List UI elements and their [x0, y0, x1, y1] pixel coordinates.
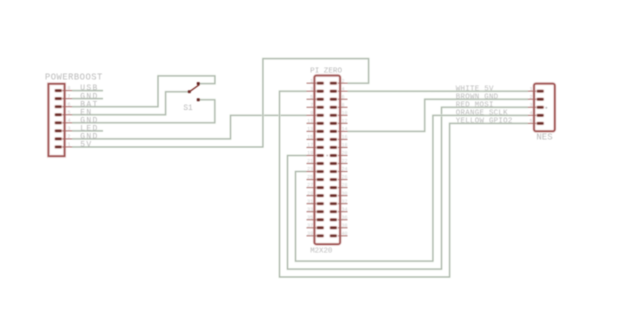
U1 pin 26 stub — [338, 179, 348, 181]
svg-text:24: 24 — [342, 167, 348, 173]
U1 pin 35 stub — [307, 219, 317, 221]
U1 pin 1 stub — [307, 82, 317, 84]
svg-text:YELLOW_GPIO2: YELLOW_GPIO2 — [456, 118, 513, 126]
svg-text:36: 36 — [342, 215, 348, 221]
U1 pin 12 stub — [338, 122, 348, 124]
svg-text:16: 16 — [342, 135, 348, 141]
U1 pin 15 stub — [307, 138, 317, 140]
wire BAT to S1 top throw — [72, 76, 215, 107]
U1 anchor dot — [326, 155, 328, 157]
U1 pin 28 stub — [338, 187, 348, 189]
svg-text:8: 8 — [342, 102, 345, 108]
svg-text:35: 35 — [307, 215, 313, 221]
U1 pin 7 stub — [307, 106, 317, 108]
wire ORANGE_SCLK PI pin 23 to NES pin 4 — [296, 115, 529, 261]
svg-text:17: 17 — [307, 143, 313, 149]
svg-text:WHITE_5V: WHITE_5V — [456, 86, 494, 94]
J1 pin 5 EN stub — [58, 114, 72, 116]
switch S1 throw contact top — [197, 82, 200, 85]
U1 pin 9 stub — [307, 114, 317, 116]
J1 pin 4 GND stub — [58, 122, 72, 124]
J1 pin 8 USB stub — [58, 90, 72, 92]
svg-text:4: 4 — [342, 86, 345, 92]
U1 pin 6 stub — [338, 98, 348, 100]
svg-text:18: 18 — [342, 143, 348, 149]
svg-text:27: 27 — [307, 183, 313, 189]
svg-text:12: 12 — [342, 118, 348, 124]
svg-text:26: 26 — [342, 175, 348, 181]
wire BROWN_GND PI pin 14 to NES pin 2 — [348, 99, 529, 131]
svg-text:9: 9 — [310, 110, 313, 116]
svg-text:10: 10 — [342, 110, 348, 116]
U1 pin 22 stub — [338, 163, 348, 165]
U1 pin 3 stub — [307, 90, 317, 92]
svg-text:37: 37 — [307, 223, 313, 229]
svg-text:3: 3 — [67, 126, 70, 132]
U1 pin 10 stub — [338, 114, 348, 116]
svg-text:25: 25 — [307, 175, 313, 181]
J1 pin 7 GND stub — [58, 98, 72, 100]
svg-text:38: 38 — [342, 223, 348, 229]
svg-text:1: 1 — [310, 78, 313, 84]
U1 pin 23 stub — [307, 171, 317, 173]
connector J2 NES body — [534, 84, 555, 132]
svg-text:7: 7 — [310, 102, 313, 108]
svg-text:22: 22 — [342, 159, 348, 165]
connector U1 PI ZERO body — [314, 76, 340, 245]
U1 pin 17 stub — [307, 146, 317, 148]
U1 pin 4 stub — [338, 90, 348, 92]
svg-text:6: 6 — [342, 94, 345, 100]
switch S1 common contact — [188, 90, 191, 93]
svg-text:5: 5 — [310, 94, 313, 100]
switch S1 lever — [189, 85, 200, 93]
svg-text:8: 8 — [67, 86, 70, 92]
J1 pin 1 5V stub — [58, 146, 72, 148]
svg-text:33: 33 — [307, 207, 313, 213]
svg-text:3: 3 — [310, 86, 313, 92]
J2 pin 4 stub — [528, 114, 537, 116]
svg-text:39: 39 — [307, 231, 313, 237]
svg-text:2: 2 — [529, 94, 532, 100]
U1 pin 2 stub — [338, 82, 348, 84]
wire GND to PI pin 9 — [72, 115, 307, 139]
wire net LED stub — [72, 130, 103, 132]
svg-text:ORANGE_SCLK: ORANGE_SCLK — [456, 110, 508, 118]
U1 pin 16 stub — [338, 138, 348, 140]
svg-text:7: 7 — [67, 94, 70, 100]
svg-text:31: 31 — [307, 199, 313, 205]
wire GND to S1 bottom throw — [72, 100, 215, 123]
wire EN to S1 common — [72, 92, 189, 115]
svg-text:5: 5 — [67, 110, 70, 116]
J1 pin 6 BAT stub — [58, 106, 72, 108]
U1 pin 38 stub — [338, 227, 348, 229]
U1 pin 14 stub — [338, 130, 348, 132]
J2 pin 1 stub — [528, 90, 537, 92]
U1 pin 30 stub — [338, 195, 348, 197]
svg-text:NES: NES — [536, 133, 552, 143]
U1 pin 34 stub — [338, 211, 348, 213]
J1 pin 2 GND stub — [58, 138, 72, 140]
U1 pin 39 stub — [307, 235, 317, 237]
U1 pin 19 stub — [307, 154, 317, 156]
switch S1 throw contact bottom — [197, 98, 200, 101]
wire net GND stub pin7 — [72, 98, 103, 100]
U1 pin 31 stub — [307, 203, 317, 205]
connector J1 POWERBOOST body — [48, 84, 64, 156]
wire YELLOW_GPIO2 PI pin 3 to NES pin 5 — [280, 91, 529, 277]
svg-text:3: 3 — [529, 102, 532, 108]
wire WHITE_5V PI pin 4 to NES pin 1 — [348, 90, 529, 92]
U1 pin 32 stub — [338, 203, 348, 205]
U1 pin 33 stub — [307, 211, 317, 213]
U1 pin 5 stub — [307, 98, 317, 100]
svg-text:29: 29 — [307, 191, 313, 197]
U1 pin 18 stub — [338, 146, 348, 148]
svg-text:28: 28 — [342, 183, 348, 189]
svg-text:5: 5 — [529, 119, 532, 125]
svg-text:30: 30 — [342, 191, 348, 197]
U1 pin 21 stub — [307, 163, 317, 165]
svg-text:40: 40 — [342, 231, 348, 237]
svg-text:32: 32 — [342, 199, 348, 205]
U1 pin 20 stub — [338, 154, 348, 156]
J2 pin 3 stub — [528, 106, 537, 108]
svg-text:15: 15 — [307, 135, 313, 141]
U1 pin 8 stub — [338, 106, 348, 108]
U1 pin 27 stub — [307, 187, 317, 189]
svg-text:14: 14 — [342, 126, 348, 132]
svg-text:13: 13 — [307, 126, 313, 132]
U1 pin 29 stub — [307, 195, 317, 197]
J2 pin 5 stub — [528, 122, 537, 124]
wire 5V to PI pin 2 — [72, 59, 369, 147]
svg-text:4: 4 — [67, 118, 70, 124]
svg-text:5V: 5V — [80, 141, 92, 150]
svg-text:6: 6 — [67, 102, 70, 108]
svg-text:S1: S1 — [183, 105, 193, 113]
wire RED_MOSI PI pin 19 to NES pin 3 — [288, 107, 529, 269]
U1 pin 13 stub — [307, 130, 317, 132]
U1 pin 40 stub — [338, 235, 348, 237]
svg-text:4: 4 — [529, 110, 532, 116]
svg-text:1: 1 — [67, 142, 70, 148]
J2 anchor dot — [545, 107, 547, 109]
svg-text:BROWN_GND: BROWN_GND — [456, 94, 499, 102]
U1 pin 36 stub — [338, 219, 348, 221]
svg-text:20: 20 — [342, 151, 348, 157]
svg-text:23: 23 — [307, 167, 313, 173]
wire net USB stub — [72, 89, 103, 91]
svg-text:M2X20: M2X20 — [310, 247, 332, 255]
svg-text:2: 2 — [67, 134, 70, 140]
svg-text:2: 2 — [342, 78, 345, 84]
U1 pin 25 stub — [307, 179, 317, 181]
J1 pin 3 LED stub — [58, 130, 72, 132]
svg-text:1: 1 — [529, 86, 532, 92]
svg-text:RED_MOSI: RED_MOSI — [456, 102, 494, 110]
svg-text:POWERBOOST: POWERBOOST — [45, 73, 103, 83]
svg-text:21: 21 — [307, 159, 313, 165]
U1 pin 37 stub — [307, 227, 317, 229]
svg-text:34: 34 — [342, 207, 348, 213]
U1 pin 24 stub — [338, 171, 348, 173]
J2 pin 2 stub — [528, 98, 537, 100]
U1 pin 11 stub — [307, 122, 317, 124]
svg-text:19: 19 — [307, 151, 313, 157]
svg-text:11: 11 — [307, 118, 313, 124]
